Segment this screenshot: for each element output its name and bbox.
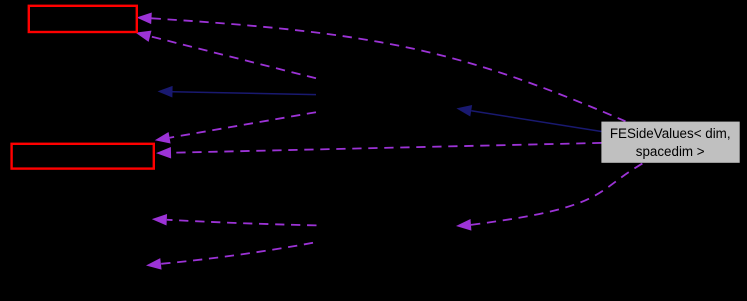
- edge E7: dashed arrow from FESideValues bottom curving to invisible node C: [471, 164, 643, 225]
- edge E1: dashed arrow from FESideValues top arcing to red node 1: [151, 18, 625, 121]
- node FESideValues: gray filled box: [601, 122, 739, 163]
- node 1: red-bordered box, label invisible: [29, 6, 137, 32]
- edge E5: dashed arrow from FESideValues to red node 2: [171, 143, 602, 153]
- edge E9: dashed arrow from invisible node C to invisible node E: [161, 243, 313, 264]
- edge E2: dashed arrow from invisible node B to red node 1: [150, 36, 316, 78]
- edge E8: dashed arrow from invisible node C to invisible node D: [167, 220, 317, 226]
- node 2: red-bordered box, label invisible: [12, 144, 154, 169]
- edge E3: solid blue arrow from invisible node B to invisible node A: [173, 92, 317, 95]
- svg-text:spacedim >: spacedim >: [636, 144, 705, 159]
- edge E4: dashed arrow from invisible node B to red node 2: [170, 112, 316, 138]
- edge E6: solid blue arrow from FESideValues to invisible node B: [471, 111, 601, 132]
- svg-text:FESideValues< dim,: FESideValues< dim,: [610, 126, 731, 141]
